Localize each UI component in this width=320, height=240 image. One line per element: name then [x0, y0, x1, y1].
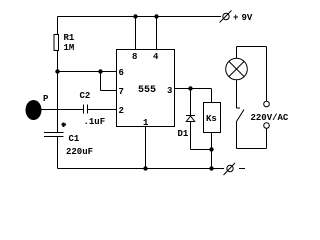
wire node to C1 [57, 72, 59, 133]
diode D1 cathode bar [186, 115, 195, 117]
microphone P [26, 100, 42, 120]
wire left vertical top to R1 [57, 17, 59, 35]
relay Ks box [204, 103, 221, 133]
wire loop bottom horizontal [237, 148, 267, 150]
wire pin7 branch vertical [100, 72, 102, 91]
node R1 bottom [55, 69, 59, 73]
terminal minus slash [224, 163, 236, 175]
svg-text:9V: 9V [242, 13, 253, 23]
wire pin8 vertical [135, 17, 137, 50]
svg-text:R1: R1 [64, 33, 75, 43]
wire lamp top stub [236, 47, 238, 59]
wire Ks bottom to rail [211, 133, 213, 169]
wire lamp bottom to switch [236, 80, 238, 108]
svg-text:220uF: 220uF [66, 147, 93, 157]
wire C2 to pin2 [88, 109, 117, 111]
wire pin7 horizontal [101, 90, 117, 92]
node D1 Ks bottom [209, 147, 213, 151]
svg-text:2: 2 [119, 106, 124, 116]
node Ks rail [209, 166, 213, 170]
wire pin6 horizontal [58, 71, 117, 73]
source terminal circle top [264, 101, 270, 107]
svg-text:1M: 1M [64, 43, 75, 53]
svg-text:1: 1 [143, 118, 149, 128]
svg-text:7: 7 [119, 87, 124, 97]
wire lamp top bracket [237, 46, 267, 48]
switch blade diagonal [237, 110, 245, 122]
svg-text:C2: C2 [80, 91, 91, 101]
wire R1 bottom to node [57, 51, 59, 72]
terminal minus dash [239, 168, 245, 170]
op-amp U1 555 box [117, 50, 175, 127]
wire pin4 vertical [156, 17, 158, 50]
wire mic to C2 [41, 109, 83, 111]
svg-text:D1: D1 [178, 129, 189, 139]
svg-text:8: 8 [132, 52, 137, 62]
terminal +9V circle [223, 13, 229, 19]
wire pin3 horizontal [175, 88, 212, 90]
node top rail pin8 [133, 14, 137, 18]
resistor R1 [54, 35, 59, 51]
node top rail pin4 [154, 14, 158, 18]
node pin6/pin7 branch [98, 69, 102, 73]
svg-text:P: P [43, 94, 49, 104]
wire right vertical to source [266, 47, 268, 102]
wire D1 top vertical [190, 89, 192, 116]
capacitor C2 [83, 105, 85, 114]
capacitor C1 plates [44, 132, 64, 134]
lamp circle [226, 58, 248, 80]
svg-text:220V/AC: 220V/AC [251, 113, 289, 123]
wire switch bottom vertical [236, 122, 238, 149]
terminal +9V slash [220, 11, 232, 23]
wire bottom rail [58, 168, 225, 170]
node pin1 rail [143, 166, 147, 170]
source terminal circle bottom [264, 123, 270, 129]
wire top rail +9V [58, 16, 222, 18]
wire C1 bottom [57, 137, 59, 169]
svg-text:Ks: Ks [206, 114, 217, 124]
svg-text:555: 555 [138, 85, 156, 96]
wire pin3 down to Ks [211, 89, 213, 103]
capacitor C1 plus sign [62, 124, 67, 126]
terminal minus circle [227, 165, 233, 171]
svg-text:+: + [233, 13, 238, 23]
lamp X cross [229, 62, 244, 77]
wire source bottom vertical [266, 129, 268, 149]
switch contact tick [237, 107, 241, 109]
svg-text:.1uF: .1uF [84, 117, 106, 127]
wire pin1 vertical [145, 127, 147, 169]
wire D1 bottom vertical [190, 122, 192, 150]
svg-text:3: 3 [167, 86, 172, 96]
wire D1 bottom to Ks bottom [191, 149, 212, 151]
svg-text:6: 6 [119, 68, 124, 78]
node pin3 D1 [188, 86, 192, 90]
svg-text:C1: C1 [69, 134, 80, 144]
diode D1 triangle [186, 116, 194, 122]
svg-text:4: 4 [153, 52, 159, 62]
